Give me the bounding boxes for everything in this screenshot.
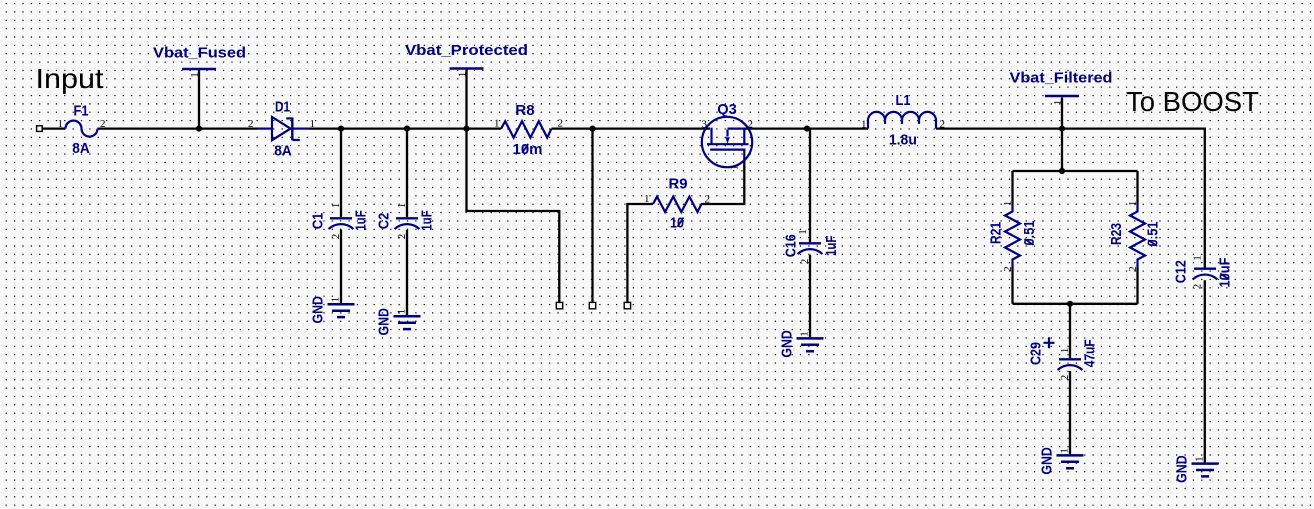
svg-text:R21: R21 — [988, 222, 1005, 244]
svg-text:47uF: 47uF — [1081, 339, 1098, 367]
svg-text:C2: C2 — [376, 213, 393, 230]
svg-text:1: 1 — [1002, 201, 1014, 207]
svg-text:GND: GND — [1173, 455, 1190, 483]
svg-text:0.51: 0.51 — [1021, 221, 1038, 246]
svg-text:1: 1 — [457, 72, 469, 78]
svg-text:Vbat_Fused: Vbat_Fused — [153, 45, 246, 62]
svg-text:10m: 10m — [513, 141, 543, 158]
svg-text:1uF: 1uF — [353, 210, 370, 231]
svg-text:C16: C16 — [783, 234, 800, 257]
svg-text:10: 10 — [670, 215, 684, 232]
svg-text:C12: C12 — [1173, 260, 1190, 283]
svg-text:1: 1 — [58, 118, 64, 130]
svg-text:1: 1 — [797, 229, 809, 235]
svg-text:C29: C29 — [1028, 342, 1045, 365]
svg-text:1: 1 — [861, 119, 867, 131]
svg-text:2: 2 — [940, 119, 946, 131]
svg-text:2: 2 — [1059, 375, 1071, 381]
svg-text:2: 2 — [330, 234, 342, 240]
svg-text:1: 1 — [644, 193, 650, 205]
svg-text:8A: 8A — [274, 143, 292, 160]
svg-text:Vbat_Filtered: Vbat_Filtered — [1010, 70, 1113, 87]
svg-text:10uF: 10uF — [1217, 258, 1234, 288]
svg-text:1: 1 — [1127, 201, 1139, 207]
svg-text:1: 1 — [1059, 348, 1071, 354]
svg-text:2: 2 — [705, 194, 711, 206]
svg-text:1: 1 — [1052, 100, 1064, 106]
svg-text:L1: L1 — [896, 92, 911, 109]
svg-text:1: 1 — [396, 203, 408, 209]
svg-text:GND: GND — [375, 308, 392, 336]
svg-text:R23: R23 — [1108, 223, 1125, 245]
svg-text:R8: R8 — [515, 102, 535, 119]
svg-text:1: 1 — [396, 309, 408, 315]
svg-text:F1: F1 — [74, 103, 89, 120]
svg-text:2: 2 — [1127, 266, 1139, 272]
svg-text:1: 1 — [330, 203, 342, 209]
svg-text:To BOOST: To BOOST — [1126, 86, 1259, 117]
svg-text:1: 1 — [1059, 448, 1071, 454]
svg-text:1.8u: 1.8u — [889, 132, 917, 149]
svg-text:8A: 8A — [72, 140, 90, 157]
svg-text:1uF: 1uF — [823, 236, 840, 256]
svg-text:D1: D1 — [275, 98, 290, 115]
svg-text:3: 3 — [702, 119, 708, 131]
svg-text:1: 1 — [1194, 456, 1206, 462]
svg-text:1: 1 — [189, 72, 201, 78]
svg-text:1: 1 — [330, 297, 342, 303]
svg-text:1: 1 — [1191, 255, 1203, 261]
svg-text:C1: C1 — [310, 213, 327, 230]
svg-text:GND: GND — [778, 330, 795, 358]
svg-text:R9: R9 — [669, 176, 688, 193]
svg-text:1: 1 — [729, 165, 741, 171]
svg-text:Q3: Q3 — [717, 101, 737, 118]
svg-text:1: 1 — [310, 118, 316, 130]
svg-text:1uF: 1uF — [419, 210, 436, 231]
svg-text:2: 2 — [1002, 266, 1014, 272]
svg-text:1: 1 — [799, 331, 811, 337]
svg-text:Vbat_Protected: Vbat_Protected — [405, 42, 528, 59]
svg-text:2: 2 — [748, 119, 754, 131]
svg-text:0.51: 0.51 — [1145, 222, 1162, 247]
svg-text:2: 2 — [248, 118, 254, 130]
svg-text:Input: Input — [36, 63, 104, 94]
svg-text:GND: GND — [309, 296, 326, 324]
svg-text:2: 2 — [100, 118, 106, 130]
svg-text:1: 1 — [494, 118, 500, 130]
svg-text:2: 2 — [799, 259, 811, 265]
svg-text:GND: GND — [1038, 447, 1055, 475]
svg-text:2: 2 — [558, 118, 564, 130]
svg-text:2: 2 — [1191, 284, 1203, 290]
svg-text:2: 2 — [396, 234, 408, 240]
